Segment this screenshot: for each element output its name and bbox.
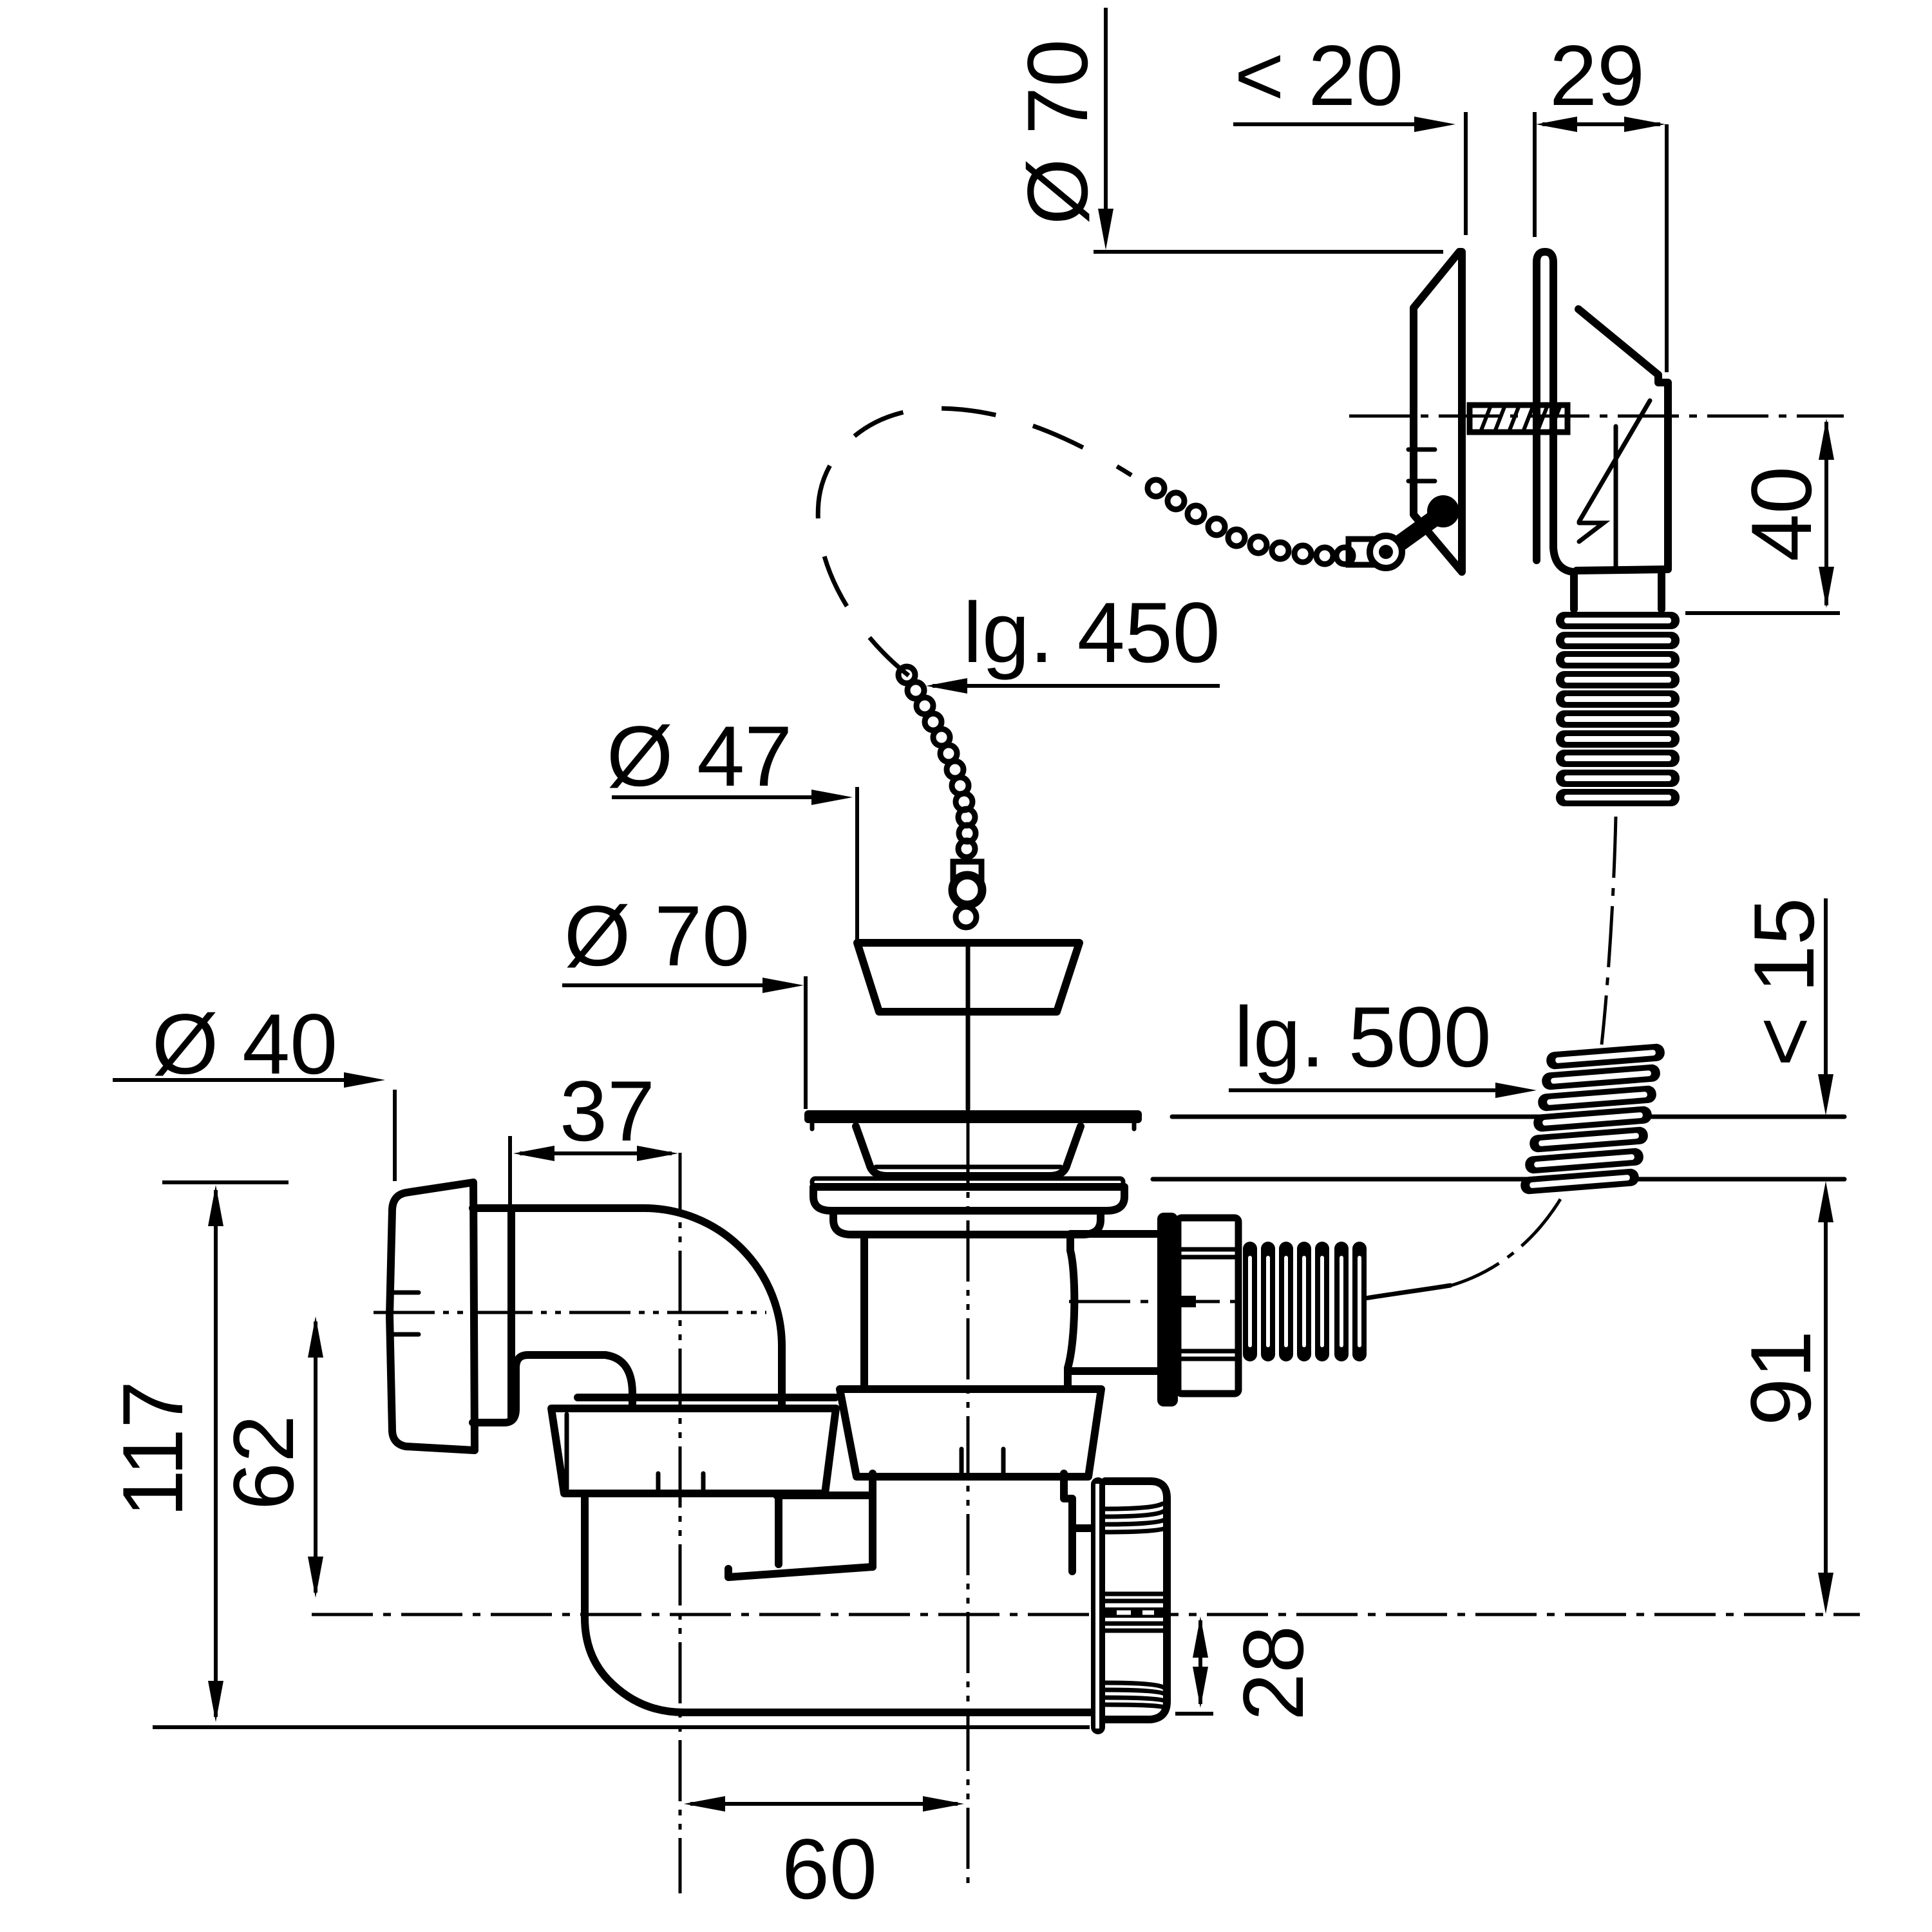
inlet pipe top bbox=[473, 1208, 782, 1408]
svg-text:Ø 47: Ø 47 bbox=[607, 709, 792, 804]
chain swivel link bbox=[953, 862, 981, 880]
dimension Ø 70 (strainer flange) bbox=[562, 889, 806, 1109]
plug eyelet bbox=[956, 907, 976, 927]
dimension Ø 40 (inlet elbow) bbox=[113, 997, 395, 1181]
dimension 28 bbox=[1175, 1616, 1321, 1721]
inlet socket rim bbox=[507, 1211, 515, 1420]
svg-text:< 15: < 15 bbox=[1737, 898, 1832, 1067]
centerline inlet elbow axis horizontal bbox=[374, 1311, 766, 1314]
dimension 60 bbox=[684, 1796, 964, 1917]
trap internal weir bbox=[728, 1567, 873, 1577]
overflow body interior detail bbox=[1579, 401, 1650, 522]
overflow screw rod bbox=[1470, 405, 1567, 432]
centerline overflow axis bbox=[1349, 415, 1844, 418]
inlet pipe bottom with step bbox=[473, 1355, 632, 1423]
svg-text:91: 91 bbox=[1734, 1331, 1829, 1426]
lever pivot bbox=[1370, 536, 1402, 568]
branch corrugated connector bbox=[1243, 1242, 1367, 1361]
branch tube bbox=[1070, 1230, 1157, 1238]
svg-text:Ø 70: Ø 70 bbox=[1010, 39, 1106, 225]
centerline branch axis bbox=[1069, 1300, 1246, 1303]
drain body branch root bbox=[1068, 1235, 1074, 1388]
trap cup walls bbox=[869, 1473, 876, 1567]
svg-text:lg. 500: lg. 500 bbox=[1234, 990, 1491, 1085]
dimension 37 bbox=[510, 1064, 678, 1352]
chain swing dashed arc bbox=[818, 408, 1132, 676]
strainer top flange bbox=[804, 1110, 1142, 1123]
dimension lg. 450 (chain) bbox=[926, 585, 1220, 694]
svg-text:< 20: < 20 bbox=[1235, 28, 1404, 124]
dimension 29 bbox=[1535, 28, 1667, 372]
centerline bottom outlet axis bbox=[312, 1613, 1860, 1616]
dimension < 20 bbox=[1233, 28, 1466, 235]
overflow body front plate bbox=[1537, 252, 1573, 572]
centerline drain axis vertical bbox=[967, 1122, 970, 1890]
dimension < 15 and 91 (right side) bbox=[1153, 898, 1844, 1614]
svg-text:37: 37 bbox=[560, 1064, 655, 1159]
overflow body cone bbox=[1577, 309, 1668, 571]
trap union nut B bbox=[840, 1389, 1101, 1477]
overflow face plate bbox=[1414, 252, 1462, 572]
inlet collar edge bbox=[578, 1394, 835, 1401]
strainer bowl bbox=[856, 1126, 1081, 1176]
svg-text:Ø 70: Ø 70 bbox=[564, 889, 750, 984]
strainer washer bbox=[812, 1179, 1123, 1186]
hose thin curve from branch bbox=[1365, 1285, 1450, 1298]
overflow corrugated hose bbox=[1556, 612, 1680, 806]
strainer flange tier 2 bbox=[833, 1211, 1101, 1235]
centerline inlet elbow axis vertical bbox=[679, 1153, 682, 1893]
branch nut bbox=[1178, 1218, 1238, 1394]
bottom duct top edge bbox=[777, 1492, 870, 1499]
lever ball bbox=[1427, 495, 1459, 527]
centerline overflow hose path dashed bbox=[1602, 817, 1616, 1045]
J-bend outer bbox=[585, 1493, 1091, 1712]
overflow face plate ticks bbox=[1408, 448, 1435, 452]
plug bbox=[857, 943, 1079, 1012]
lever arm bbox=[1395, 515, 1439, 547]
chain upper beads bbox=[1148, 480, 1353, 564]
dimension 62 bbox=[216, 1316, 323, 1598]
svg-text:40: 40 bbox=[1734, 466, 1830, 562]
PARTS bbox=[390, 252, 1680, 1734]
overflow outlet stub bbox=[1574, 571, 1662, 609]
svg-text:29: 29 bbox=[1549, 28, 1645, 124]
dimension lg. 500 (hose) bbox=[1229, 990, 1537, 1098]
outlet nut flange bbox=[1091, 1477, 1105, 1734]
svg-text:lg. 450: lg. 450 bbox=[963, 585, 1220, 681]
inlet union nut A bbox=[551, 1408, 836, 1493]
dimension 117 bbox=[106, 1182, 1090, 1727]
svg-text:60: 60 bbox=[782, 1822, 877, 1917]
dimension Ø 70 (overflow plate) bbox=[1010, 8, 1443, 252]
chain bracket bbox=[1349, 539, 1382, 565]
drain body tube bbox=[860, 1235, 868, 1388]
dimension Ø 47 (plug) bbox=[607, 709, 857, 940]
branch flange bar bbox=[1157, 1213, 1178, 1406]
outlet nut body bbox=[1105, 1481, 1167, 1719]
dimension 40 (overflow outlet) bbox=[1685, 419, 1840, 613]
svg-text:Ø 40: Ø 40 bbox=[152, 997, 337, 1092]
chain lower beads bbox=[898, 667, 976, 857]
compressed hose coil lg.500 bbox=[1520, 1043, 1665, 1195]
svg-text:28: 28 bbox=[1226, 1625, 1321, 1721]
strainer flange tier 1 bbox=[813, 1187, 1124, 1211]
chain swivel ring bbox=[952, 875, 982, 905]
svg-text:117: 117 bbox=[106, 1381, 201, 1517]
svg-text:62: 62 bbox=[216, 1415, 312, 1510]
rosette bbox=[390, 1182, 475, 1450]
